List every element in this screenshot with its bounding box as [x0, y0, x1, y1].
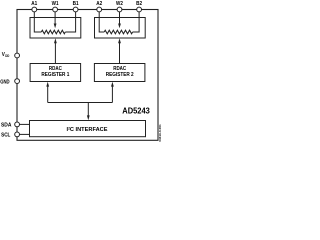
potentiometer box 1 [30, 18, 81, 39]
pin A2 [96, 1, 102, 12]
svg-text:W2: W2 [116, 1, 123, 7]
pin A1 [31, 1, 37, 12]
pin B1 [73, 1, 79, 12]
pin VDD [2, 52, 20, 58]
svg-text:GND: GND [0, 79, 9, 85]
svg-text:W1: W1 [52, 1, 59, 7]
I2C interface box [30, 121, 146, 137]
part label AD5243 [122, 106, 150, 116]
svg-text:DD: DD [5, 53, 9, 58]
wire B1 terminal to resistor 1 right end [65, 10, 75, 32]
wire A1 terminal to resistor 1 left end [34, 10, 41, 32]
chip outline AD5243 [17, 10, 158, 141]
wire RDAC register 1 to wiper 1 (arrow up) [54, 38, 57, 63]
wire A2 terminal to resistor 2 left end [99, 10, 104, 32]
resistor 2 (RDAC2 element) [104, 30, 132, 34]
wire bus to I2C interface (arrow down) [87, 103, 90, 121]
wire interface bus to RDAC register 1 (arrow up) [46, 82, 49, 103]
wire SCL to interface [17, 133, 29, 135]
wire SDA to interface [17, 123, 29, 125]
wire W1 wiper arrow [54, 10, 57, 28]
figure code 03316-0-001 [158, 124, 162, 142]
RDAC register 1 box [30, 64, 81, 82]
wire W2 wiper arrow [118, 10, 121, 28]
bus wire between registers and interface [48, 102, 113, 104]
svg-text:REGISTER 2: REGISTER 2 [106, 72, 134, 78]
svg-text:B2: B2 [136, 1, 142, 7]
resistor 1 (RDAC1 element) [41, 30, 65, 34]
pin B2 [136, 1, 142, 12]
wire interface bus to RDAC register 2 (arrow up) [111, 82, 114, 103]
svg-text:SCL: SCL [1, 133, 11, 139]
pin W2 [116, 1, 123, 12]
pin SCL [1, 132, 19, 139]
svg-text:I2C INTERFACE: I2C INTERFACE [67, 126, 108, 133]
svg-text:A2: A2 [96, 1, 102, 7]
pin SDA [1, 122, 20, 128]
wire B2 terminal to resistor 2 right end [133, 10, 140, 32]
svg-text:B1: B1 [73, 1, 79, 7]
svg-text:03316-0-001: 03316-0-001 [158, 124, 162, 142]
potentiometer box 2 [95, 18, 146, 39]
RDAC register 2 box [94, 64, 144, 82]
svg-text:SDA: SDA [1, 122, 12, 128]
svg-text:A1: A1 [31, 1, 37, 7]
pin GND [0, 79, 19, 86]
wire RDAC register 2 to wiper 2 (arrow up) [118, 38, 121, 63]
svg-text:REGISTER 1: REGISTER 1 [41, 72, 69, 78]
svg-text:AD5243: AD5243 [122, 106, 150, 116]
pin W1 [52, 1, 59, 12]
